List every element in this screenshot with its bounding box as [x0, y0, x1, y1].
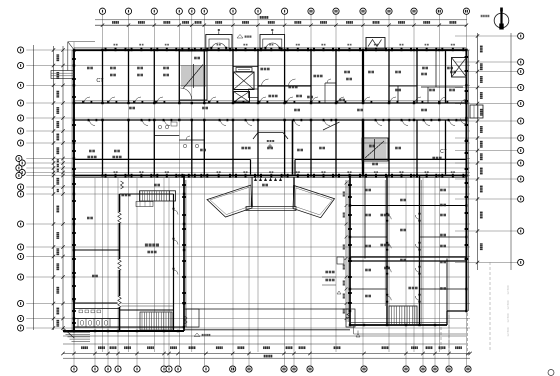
- right wing partition x447 lower: [446, 259, 448, 312]
- hall south stair: [140, 312, 172, 330]
- entrance lobby niche: [253, 133, 288, 149]
- sub-partition in south band west: [154, 122, 179, 136]
- hall west wall: [119, 194, 121, 330]
- horizontal column grid lines (right set): [455, 36, 518, 262]
- elevator lobby wall: [233, 66, 258, 68]
- hall north wall: [120, 194, 174, 330]
- scale note top right: [481, 15, 490, 17]
- CT room text labels: [96, 78, 447, 159]
- window tags above courtyard wall: [114, 171, 455, 173]
- east bay attachment: [470, 105, 483, 118]
- svg-text:CT: CT: [96, 78, 104, 84]
- toilet stalls: [78, 319, 110, 328]
- svg-text:12.500: 12.500: [506, 300, 510, 310]
- left dimension chain: [34, 45, 65, 331]
- west side entry canopy top-left: [51, 71, 74, 79]
- corner folding doors: [184, 313, 350, 325]
- right margin vertical notes: [506, 285, 510, 337]
- top wing room partitions upper band: [103, 50, 446, 103]
- right wing corridor west wall x387: [385, 176, 387, 326]
- room labels (tiny): [87, 67, 456, 298]
- vertical column grid lines (bottom set): [74, 42, 449, 366]
- courtyard-facing south wall of top wing: [74, 176, 466, 178]
- east strip door arcs: [173, 208, 179, 275]
- left wing east wall (courtyard west edge): [184, 176, 186, 332]
- bottom dimension chain: [61, 346, 471, 358]
- elevator shaft 2 with cross: [234, 92, 250, 103]
- hall double fire doors: [118, 181, 124, 307]
- top grid bubbles with axis numbers: [99, 8, 469, 14]
- courtyard-side annotation cluster: [322, 257, 344, 294]
- small wc room below stair: [179, 136, 204, 148]
- lobby east wall: [292, 120, 294, 176]
- corridor double-door arcs north side: [82, 97, 448, 103]
- window tags above north wall: [114, 44, 455, 46]
- entrance step triangles: [254, 178, 282, 181]
- courtyard bottom site lines: [63, 336, 466, 344]
- window jamb marks east wall: [465, 56, 469, 260]
- left wing room divider 1: [74, 249, 120, 251]
- nw corner chamfer: [68, 42, 95, 71]
- svg-text:12.500: 12.500: [506, 313, 510, 323]
- small sub-room near x330 upper band: [325, 79, 336, 103]
- sub-partitions in north rooms (east part): [389, 50, 463, 103]
- elevator shaft 1 with cross: [234, 72, 255, 90]
- staircase 1 (west core): [180, 51, 208, 100]
- column squares on walls: [73, 49, 468, 332]
- right wing west wall (courtyard east edge): [348, 176, 350, 326]
- canopy roof right panel: [293, 186, 335, 218]
- right wing bottom wall: [350, 322, 447, 325]
- left grid bubbles with axis letters: [16, 47, 26, 331]
- service duct below elevators: [236, 68, 258, 98]
- right dimension chain: [476, 33, 511, 270]
- south band split wall y159.5: [74, 160, 466, 176]
- level mark courtyard: [194, 333, 210, 337]
- right wing thin partition x365: [364, 176, 366, 259]
- north entrance vestibule 1: [206, 29, 232, 50]
- right wing corridor east wall x419.5: [420, 176, 422, 326]
- level mark north entry: [237, 35, 251, 39]
- left wing bottom wall: [63, 327, 184, 331]
- west exterior wall: [72, 50, 74, 331]
- courtyard terrace edge: [184, 309, 355, 330]
- level flag at wing bottom: [356, 331, 360, 338]
- hall label: [145, 244, 159, 254]
- svg-text:12.500: 12.500: [506, 285, 510, 295]
- north ramp enclosure with zigzag: [366, 38, 385, 49]
- window jamb marks north wall: [105, 48, 465, 52]
- outline below right wing bottom: [354, 326, 466, 334]
- staircase 2 (east core): [362, 138, 388, 165]
- wash basins: [79, 310, 101, 313]
- window jamb marks courtyard side walls: [182, 184, 352, 304]
- toilet band partition: [74, 318, 120, 320]
- bottom grid bubbles with axis numbers: [71, 366, 471, 372]
- right wing corridor door arcs: [386, 213, 421, 303]
- north exterior wall: [74, 48, 466, 50]
- left wing room divider 2: [74, 303, 120, 309]
- corridor single-door arcs south side: [88, 119, 458, 126]
- svg-text:12.500: 12.500: [506, 327, 510, 337]
- chamfer corner room 311-336: [323, 122, 340, 130]
- hall stage line: [120, 306, 174, 310]
- window jamb marks west wall: [72, 58, 76, 324]
- small arrow bottom right corner bubble: [548, 370, 554, 376]
- right wing south stair: [389, 306, 417, 325]
- north arrow symbol: [494, 8, 509, 30]
- east exterior wall upper: [466, 50, 468, 311]
- north entrance vestibule 2: [260, 29, 285, 50]
- corridor south wall: [74, 101, 466, 120]
- svg-text:CT: CT: [440, 149, 447, 155]
- east elevator shaft with cross: [452, 58, 467, 78]
- top dimension chain: [95, 16, 468, 27]
- right grid bubbles with axis letters: [518, 33, 524, 266]
- courtyard-side dimension chain at x346: [343, 180, 348, 322]
- top wing room partitions lower band: [103, 120, 446, 176]
- horizontal column grid lines (left set): [26, 50, 470, 328]
- hall entry steps hatch: [121, 184, 175, 207]
- sub-band wall y84 with small rooms (center): [258, 79, 311, 97]
- window jamb marks courtyard south wall: [105, 174, 465, 178]
- south-west porch steps: [64, 328, 91, 341]
- right lower dashed projection lines: [441, 262, 490, 352]
- canopy support posts: [251, 177, 295, 207]
- canopy roof left panel: [207, 185, 252, 217]
- east wall door arcs: [461, 100, 467, 125]
- right wing south-east step walls: [447, 311, 466, 325]
- entrance walkway: [246, 207, 296, 211]
- right wing room walls horizontal: [350, 206, 466, 290]
- corridor north wall: [74, 102, 466, 104]
- vertical column grid lines (top set): [103, 14, 467, 366]
